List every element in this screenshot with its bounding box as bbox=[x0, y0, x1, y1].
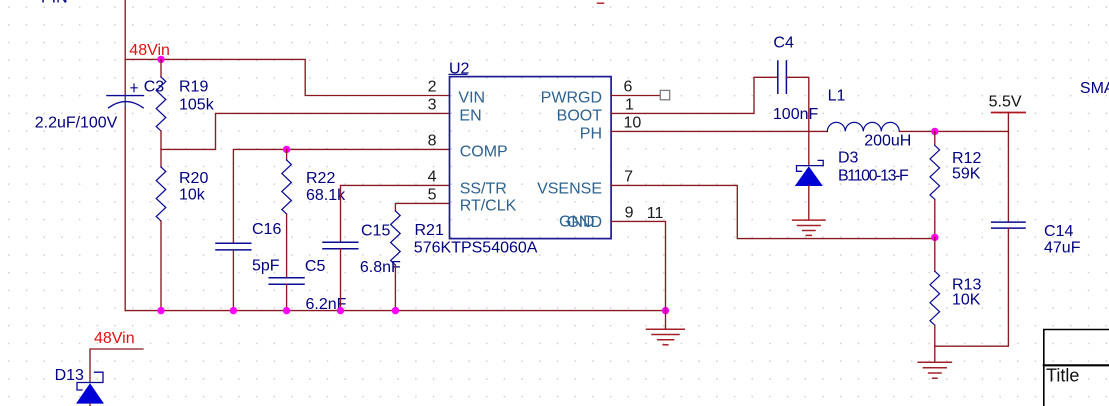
wire: R13 bottom to ground bbox=[934, 325, 936, 362]
svg-text:GND: GND bbox=[566, 214, 602, 231]
wire: C3 bottom to ground rail bbox=[124, 108, 126, 311]
wire: 48Vin input vertical (top) bbox=[124, 0, 126, 108]
svg-text:8: 8 bbox=[428, 133, 437, 150]
U2 pin 4 SS/TR bbox=[428, 169, 507, 198]
ground (U2) bbox=[647, 311, 685, 345]
wire: R12 bottom to feedback node bbox=[934, 199, 936, 237]
svg-text:PWRGD: PWRGD bbox=[541, 89, 602, 106]
net label PIN (clipped at top edge) bbox=[41, 0, 68, 7]
junction: rail / R20 bbox=[157, 307, 164, 314]
svg-text:59K: 59K bbox=[952, 166, 981, 183]
label R21 bbox=[415, 222, 444, 239]
resistor R20 bbox=[156, 167, 166, 221]
label C15 bbox=[361, 223, 390, 240]
value 10k bbox=[179, 187, 206, 204]
wire: feedback node to R13 bbox=[934, 237, 936, 271]
resistor R13 bbox=[930, 271, 940, 325]
U2 pin 6 PWRGD bbox=[541, 79, 633, 107]
svg-text:48Vin: 48Vin bbox=[129, 42, 170, 59]
value 10K bbox=[952, 292, 981, 309]
wire: PH to L1 bbox=[611, 130, 827, 132]
svg-text:47uF: 47uF bbox=[1044, 240, 1081, 257]
junction: COMP / R22 bbox=[283, 146, 290, 153]
wire: PWRGD stub bbox=[611, 95, 660, 97]
U2 pin 3 EN bbox=[428, 97, 482, 125]
junction: rail / C16 bbox=[230, 307, 237, 314]
label C3 bbox=[144, 79, 165, 96]
svg-text:C5: C5 bbox=[305, 258, 326, 275]
svg-text:5: 5 bbox=[428, 187, 437, 204]
value 100nF bbox=[773, 106, 819, 123]
svg-text:R22: R22 bbox=[306, 170, 335, 187]
U2 pin 2 VIN bbox=[428, 79, 485, 107]
wire: junction to R19 bbox=[160, 59, 162, 77]
svg-text:7: 7 bbox=[624, 169, 633, 186]
svg-text:2: 2 bbox=[428, 79, 437, 96]
U2 pin 5 RT/CLK bbox=[428, 187, 517, 215]
svg-text:5.5V: 5.5V bbox=[989, 94, 1022, 111]
wire: R22 bottom to C5 bbox=[286, 214, 288, 278]
wire: L1 to 5.5V node bbox=[899, 130, 1008, 132]
capacitor C16 bbox=[216, 243, 251, 250]
ground (D3) bbox=[793, 220, 825, 235]
svg-text:48Vin: 48Vin bbox=[94, 330, 135, 347]
no-connect square on pin 6 bbox=[660, 90, 669, 99]
wire: SS/TR net to C15 bbox=[341, 185, 450, 242]
label R20 bbox=[179, 170, 208, 187]
value 105k bbox=[179, 97, 215, 114]
capacitor C4 bbox=[778, 61, 787, 93]
wire: 48Vin stub to D13 bbox=[90, 349, 143, 383]
resistor R19 bbox=[156, 77, 166, 131]
capacitor C14 bbox=[992, 222, 1025, 228]
capacitor C3 bbox=[107, 84, 144, 108]
junction: feedback node bbox=[931, 234, 938, 241]
inductor L1 bbox=[827, 122, 899, 131]
diode D13 (schottky, clipped at bottom) bbox=[76, 372, 104, 406]
value B1100-13-F bbox=[838, 167, 909, 184]
value 200uH bbox=[864, 132, 911, 149]
svg-text:TPS54060A: TPS54060A bbox=[451, 240, 538, 257]
svg-text:1: 1 bbox=[625, 97, 634, 114]
svg-text:COMP: COMP bbox=[460, 143, 508, 160]
wire: EN branch bbox=[161, 113, 450, 149]
wire: 48Vin horizontal to VIN bbox=[125, 59, 449, 95]
svg-text:2.2uF/100V: 2.2uF/100V bbox=[35, 114, 118, 131]
svg-text:Title: Title bbox=[1046, 365, 1079, 385]
svg-text:PH: PH bbox=[580, 125, 602, 142]
label R13 bbox=[952, 277, 981, 294]
label R22 bbox=[306, 170, 335, 187]
value 68.1k bbox=[306, 187, 346, 204]
svg-text:C3: C3 bbox=[144, 79, 165, 96]
capacitor C15 bbox=[323, 242, 358, 249]
wire: RT/CLK net to R21 bbox=[395, 203, 449, 211]
svg-text:9: 9 bbox=[625, 205, 634, 222]
resistor R21 bbox=[391, 211, 401, 265]
value 576K bbox=[414, 240, 452, 257]
svg-text:VIN: VIN bbox=[458, 89, 485, 106]
wire stub (top edge) bbox=[598, 2, 604, 4]
U2 pin 7 VSENSE bbox=[537, 169, 633, 198]
svg-text:R21: R21 bbox=[415, 222, 444, 239]
svg-text:R19: R19 bbox=[179, 78, 208, 95]
label D13 bbox=[55, 367, 84, 384]
wire: COMP net bbox=[233, 149, 449, 243]
resistor R22 bbox=[282, 160, 292, 214]
diode D3 (B1100-13-F schottky) bbox=[795, 131, 823, 219]
wire: C14 bottom return bbox=[935, 228, 1009, 346]
value 5pF bbox=[252, 258, 280, 275]
svg-text:10k: 10k bbox=[179, 187, 206, 204]
wire: output down to C14 bbox=[1007, 131, 1009, 222]
svg-text:PIN: PIN bbox=[41, 0, 68, 7]
wire: R19 bottom to R20 top bbox=[160, 131, 162, 167]
svg-text:EN: EN bbox=[459, 107, 481, 124]
power port 5.5V bbox=[989, 94, 1025, 132]
svg-text:200uH: 200uH bbox=[864, 132, 911, 149]
junction: rail / C5 bbox=[283, 307, 290, 314]
net label 48Vin bbox=[129, 42, 170, 59]
ground (output) bbox=[918, 362, 951, 378]
wire: R21 bottom to rail bbox=[394, 265, 396, 311]
svg-text:SMA: SMA bbox=[1080, 80, 1109, 97]
svg-text:5pF: 5pF bbox=[252, 258, 280, 275]
op-amp U2 (TPS54060A IC body) bbox=[449, 60, 611, 238]
label C14 bbox=[1044, 223, 1073, 240]
svg-text:BOOT: BOOT bbox=[557, 107, 603, 124]
svg-text:D3: D3 bbox=[838, 150, 859, 167]
label D3 bbox=[838, 150, 859, 167]
wire: ground rail bbox=[125, 310, 665, 312]
svg-text:RT/CLK: RT/CLK bbox=[460, 197, 517, 214]
value 59K bbox=[952, 166, 981, 183]
title block bbox=[1044, 330, 1109, 406]
label C5 bbox=[305, 258, 326, 275]
svg-text:11: 11 bbox=[647, 205, 664, 222]
wire: R22 top bbox=[286, 149, 288, 160]
junction: rail / U2 GND bbox=[662, 307, 669, 314]
resistor R12 bbox=[930, 145, 940, 199]
svg-text:L1: L1 bbox=[828, 88, 846, 105]
net label SMA (clipped at right edge) bbox=[1080, 80, 1109, 97]
wire: BOOT to C4 bbox=[611, 77, 778, 113]
U2 pin 1 BOOT bbox=[557, 97, 634, 125]
junction: rail / C15 bbox=[337, 307, 344, 314]
U2 pin 9 GND bbox=[559, 205, 634, 231]
junction: output / R12 bbox=[931, 128, 938, 135]
wire: junction to R12 bbox=[934, 131, 936, 145]
svg-text:D13: D13 bbox=[55, 367, 84, 384]
net label 48Vin (bottom) bbox=[94, 330, 135, 347]
svg-text:VSENSE: VSENSE bbox=[537, 180, 602, 197]
U2 pin 8 COMP bbox=[428, 133, 508, 161]
svg-text:10: 10 bbox=[624, 115, 642, 132]
U2 pin 10 PH bbox=[580, 115, 642, 143]
label R19 bbox=[179, 78, 208, 95]
junction: 48Vin / R19 bbox=[157, 56, 164, 63]
label R12 bbox=[952, 150, 981, 167]
svg-text:R12: R12 bbox=[952, 150, 981, 167]
wire: VSENSE to feedback node bbox=[611, 185, 935, 238]
label C4 bbox=[773, 35, 794, 52]
U2 pin 11 GND bbox=[566, 205, 663, 231]
svg-text:576K: 576K bbox=[414, 240, 452, 257]
wire: R20 bottom to rail bbox=[160, 221, 162, 311]
label C16 bbox=[252, 221, 281, 238]
svg-text:100nF: 100nF bbox=[773, 106, 819, 123]
wire: C15 bottom to rail bbox=[340, 249, 342, 311]
svg-text:C14: C14 bbox=[1044, 223, 1073, 240]
value TPS54060A bbox=[451, 240, 538, 257]
value 6.8nF bbox=[360, 259, 401, 276]
label L1 bbox=[828, 88, 846, 105]
svg-text:4: 4 bbox=[428, 169, 437, 186]
value 6.2nF bbox=[306, 296, 347, 313]
svg-text:105k: 105k bbox=[179, 97, 215, 114]
svg-text:B1100-13-F: B1100-13-F bbox=[838, 167, 909, 184]
capacitor C5 bbox=[269, 278, 304, 285]
svg-text:C4: C4 bbox=[773, 35, 794, 52]
svg-text:R20: R20 bbox=[179, 170, 208, 187]
junction: rail / R21 bbox=[392, 307, 399, 314]
svg-text:C15: C15 bbox=[361, 223, 390, 240]
value 47uF bbox=[1044, 240, 1081, 257]
svg-text:10K: 10K bbox=[952, 292, 981, 309]
svg-text:SS/TR: SS/TR bbox=[460, 180, 507, 197]
wire: C16 bottom to rail bbox=[232, 250, 234, 311]
svg-text:3: 3 bbox=[428, 97, 437, 114]
value 2.2uF/100V bbox=[35, 114, 118, 131]
wire: C4 right to PH node bbox=[786, 77, 808, 131]
wire: GND pins to rail bbox=[611, 221, 666, 310]
wire: C5 bottom to rail bbox=[286, 284, 288, 310]
svg-text:C16: C16 bbox=[252, 221, 281, 238]
svg-text:6: 6 bbox=[624, 79, 633, 96]
